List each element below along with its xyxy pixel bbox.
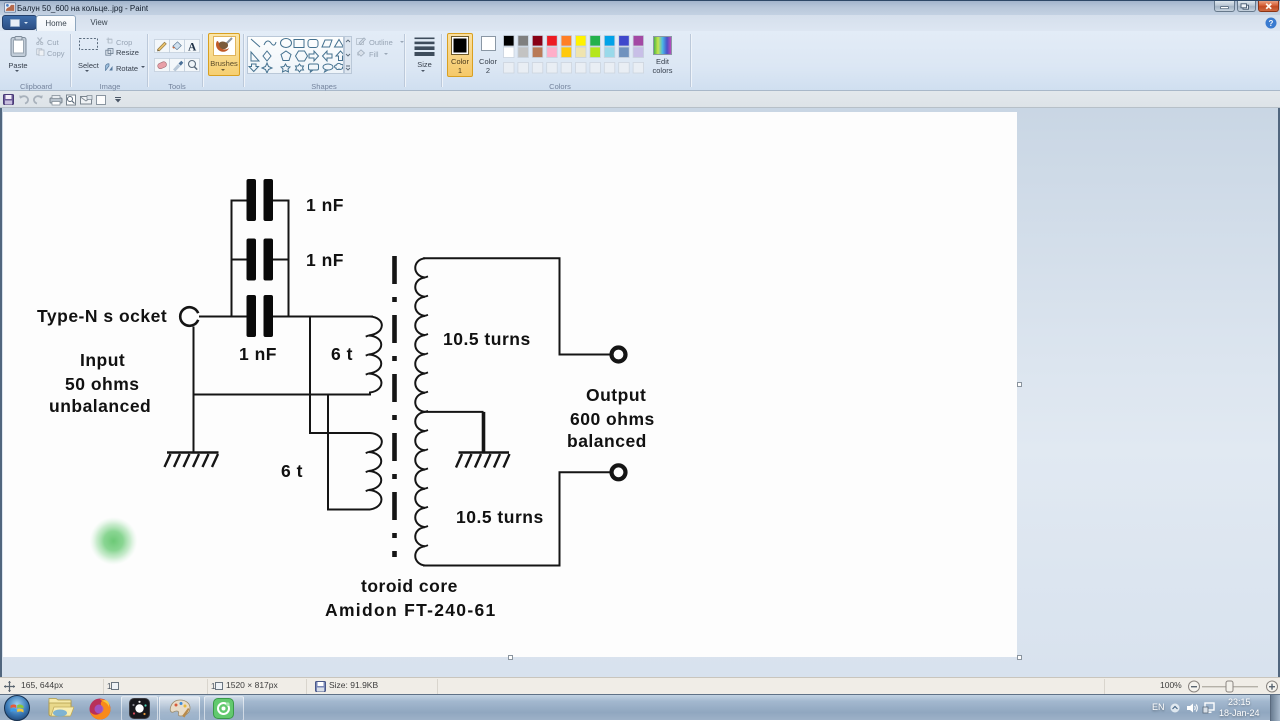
Image group — [79, 38, 98, 50]
wire secondary center tap — [425, 411, 484, 413]
wire socket ground drop — [193, 327, 195, 453]
svg-text:unbalanced: unbalanced — [49, 396, 151, 416]
Outline / Fill — [356, 37, 366, 45]
inductor L1 top primary 6t winding — [369, 317, 382, 395]
node output terminal top — [612, 348, 626, 362]
explorer — [48, 698, 74, 719]
black app button — [121, 696, 158, 721]
capacitor C2 plate bars — [247, 239, 257, 281]
svg-text:toroid core: toroid core — [361, 576, 458, 596]
svg-text:Type-N s ocket: Type-N s ocket — [37, 306, 167, 326]
svg-text:600 ohms: 600 ohms — [570, 409, 655, 429]
mail — [81, 97, 92, 105]
Color 1 — [447, 33, 473, 77]
caret — [115, 99, 121, 103]
start orb — [4, 695, 30, 721]
svg-text:Amidon FT-240-61: Amidon FT-240-61 — [325, 600, 497, 620]
wire input line from socket through C3 to transformer — [199, 316, 373, 318]
toroid core dash-dot line — [392, 256, 397, 557]
svg-text:6 t: 6 t — [281, 461, 303, 481]
svg-text:10.5 turns: 10.5 turns — [456, 507, 544, 527]
node output terminal bottom — [612, 465, 626, 479]
Shapes box — [247, 36, 344, 74]
blank box — [97, 96, 106, 105]
help icon — [1265, 17, 1277, 29]
wire right bus of capacitor bank — [288, 200, 290, 317]
svg-text:Output: Output — [586, 385, 646, 405]
wire secondary bottom lead to output — [423, 472, 610, 565]
Edit colors — [653, 36, 672, 55]
wire C: from B down to lower winding bottom — [328, 395, 370, 510]
node socket: Type-N connector circle — [180, 307, 198, 326]
group separators — [70, 34, 72, 87]
svg-text:1 nF: 1 nF — [306, 195, 344, 215]
Clipboard group — [10, 36, 27, 57]
wire A: hot line down to lower primary winding top — [310, 317, 370, 434]
wire C2 left lead — [232, 259, 247, 261]
paint app button — [159, 696, 200, 721]
wire left bus of capacitor bank — [231, 200, 233, 317]
group labels — [0, 82, 86, 91]
firefox — [88, 698, 112, 720]
wire C1 left lead — [232, 200, 247, 202]
wire secondary top lead to output — [423, 258, 610, 354]
capacitor C1 top plate bars — [247, 179, 274, 337]
save — [4, 95, 14, 105]
wire B: lower horizontal to top winding bottom — [194, 394, 372, 396]
svg-text:Input: Input — [80, 350, 125, 370]
palette — [503, 35, 648, 75]
svg-text:50 ohms: 50 ohms — [65, 374, 140, 394]
svg-text:1 nF: 1 nF — [239, 344, 277, 364]
window chrome — [0, 0, 1280, 15]
undo/redo greyed — [20, 96, 28, 103]
inductor L3 secondary winding (16 turns) — [415, 258, 425, 565]
preview — [67, 95, 76, 105]
wire C1 right lead — [273, 200, 289, 202]
Tools group — [154, 39, 200, 72]
svg-text:10.5 turns: 10.5 turns — [443, 329, 531, 349]
capacitor C3 plate bars — [247, 295, 257, 337]
svg-text:6 t: 6 t — [331, 344, 353, 364]
ground (secondary center tap ground symbol) — [459, 451, 510, 453]
ground (left input ground symbol) — [167, 451, 219, 453]
wire C2 right lead — [273, 259, 289, 261]
svg-text:1 nF: 1 nF — [306, 250, 344, 270]
printer — [50, 98, 62, 103]
Color 2 — [481, 36, 496, 51]
Size — [414, 37, 435, 56]
green app button — [204, 696, 244, 721]
svg-text:balanced: balanced — [567, 431, 647, 451]
inductor L2 bottom primary 6t winding — [369, 433, 382, 510]
Brushes button — [208, 33, 240, 76]
tray — [1152, 702, 1165, 712]
